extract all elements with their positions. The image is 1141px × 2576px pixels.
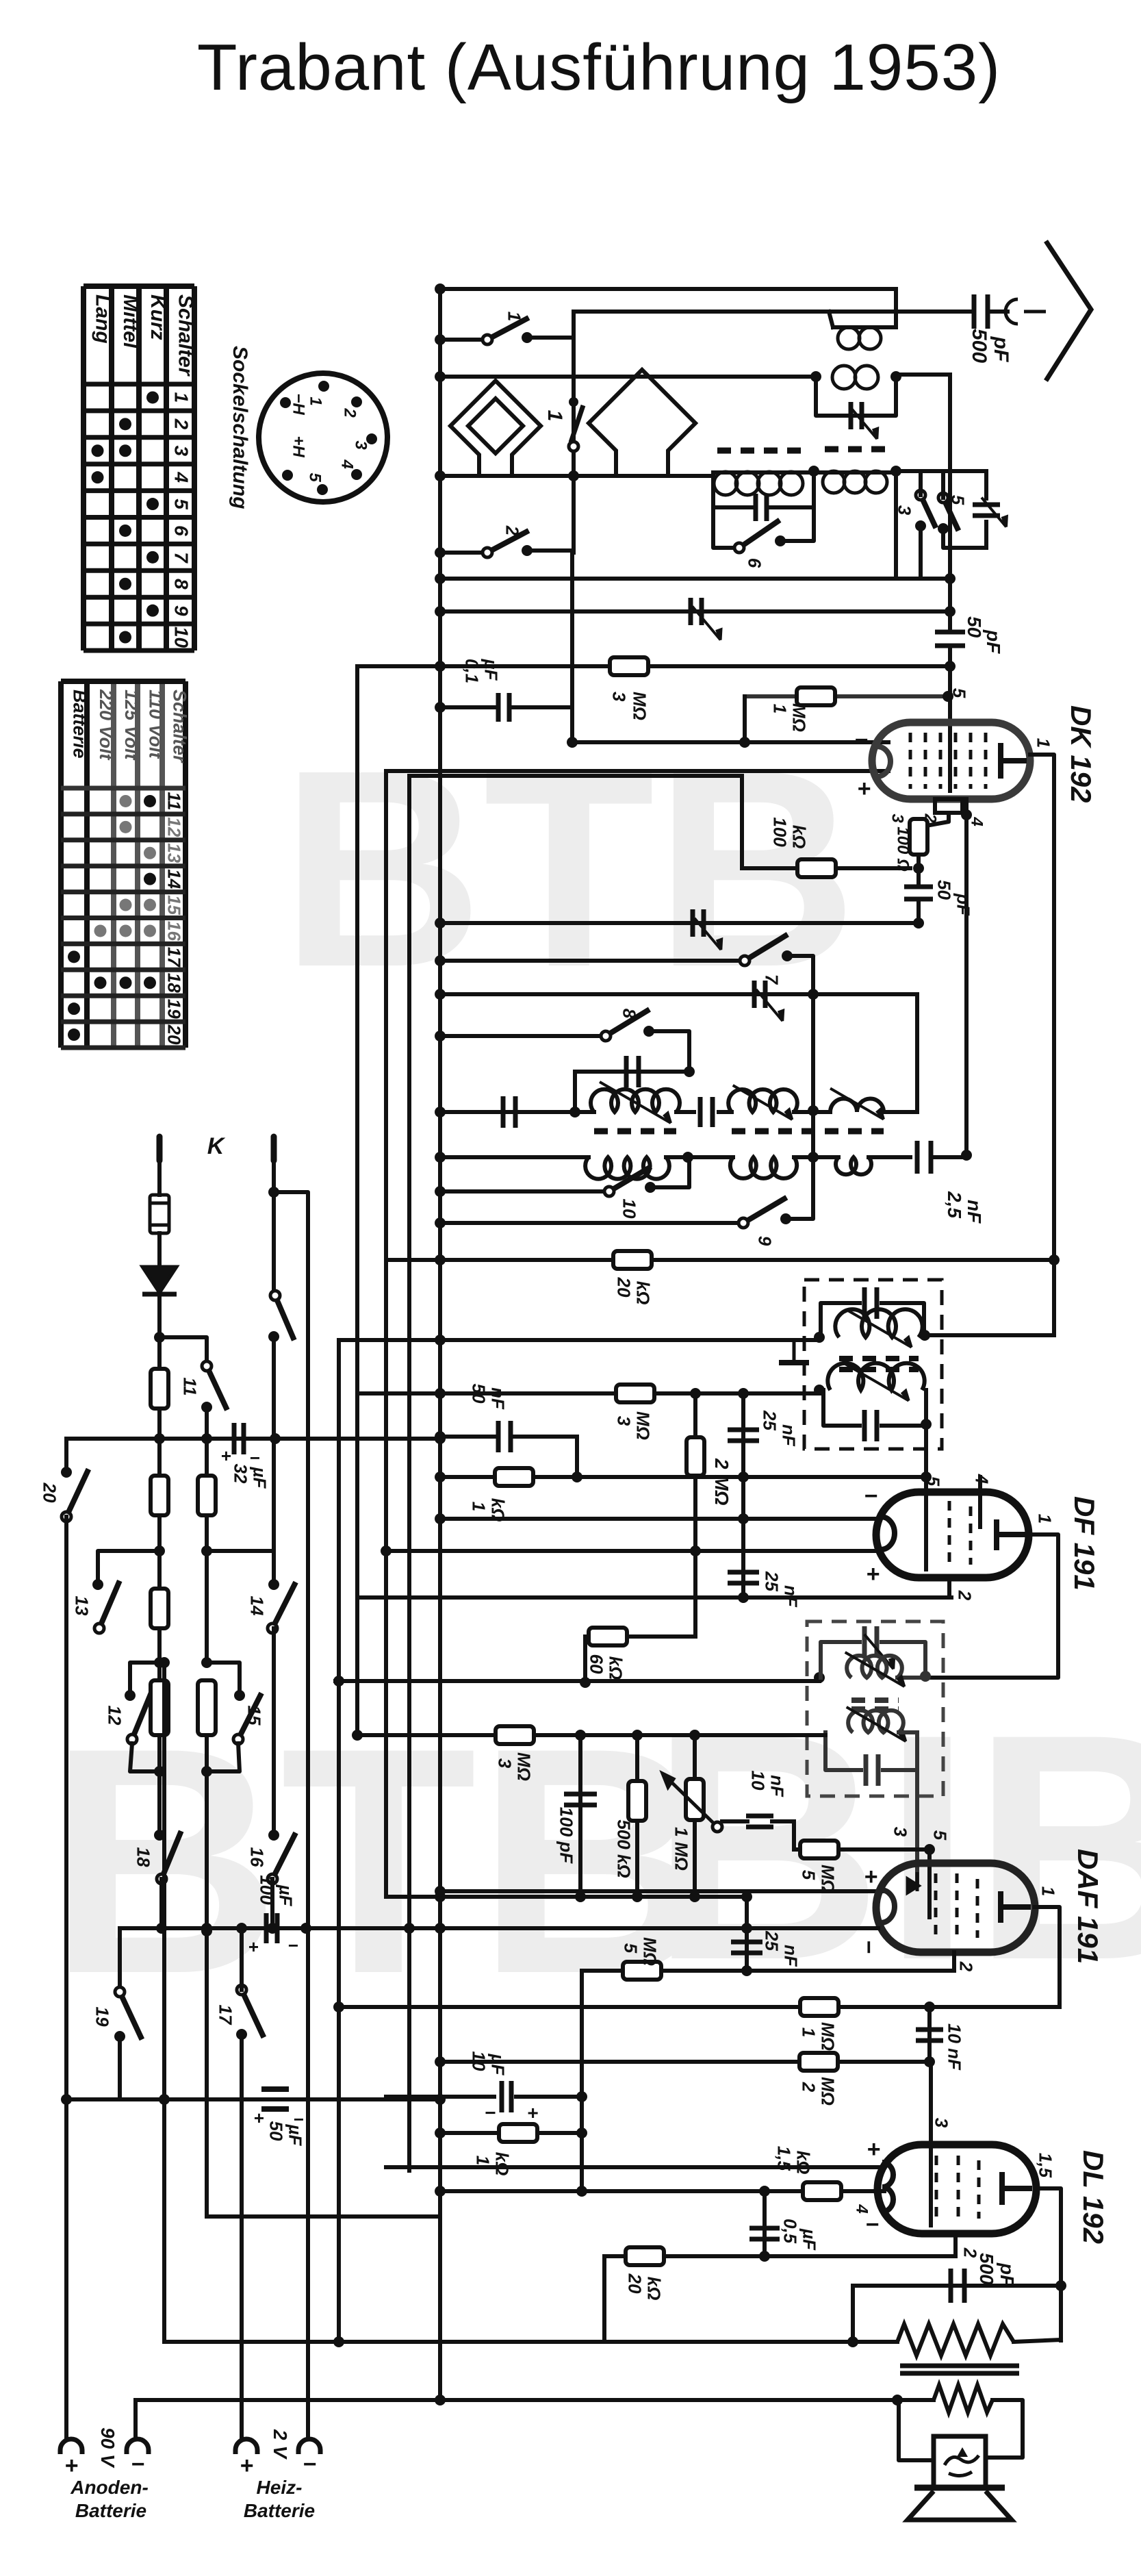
- svg-text:2: 2: [921, 813, 939, 823]
- wire: [440, 705, 494, 709]
- svg-text:+: +: [64, 2453, 78, 2479]
- capacitor 10nF: [746, 1816, 773, 1827]
- junction: [808, 1105, 819, 1116]
- resistor 2MOhm b: [799, 2053, 838, 2071]
- wire: [386, 1895, 747, 1899]
- wire: [207, 1551, 274, 1582]
- socket pin: [317, 484, 328, 495]
- wire: [851, 2286, 855, 2342]
- wire: [693, 1393, 697, 1437]
- wire: [386, 769, 888, 773]
- svg-text:8: 8: [170, 579, 192, 590]
- svg-text:+: +: [864, 1864, 877, 1890]
- junction: [435, 1431, 446, 1442]
- junction: [847, 2336, 858, 2347]
- switch 17 contact: [236, 2029, 247, 2040]
- svg-text:µF: µF: [481, 659, 502, 681]
- wire: [575, 1437, 579, 1477]
- wire: [157, 1409, 162, 1439]
- tube DF191 grid 3: [969, 1506, 973, 1565]
- svg-text:+: +: [248, 1936, 258, 1957]
- wire: [794, 1847, 930, 1852]
- capacitor 500pF b: [951, 2269, 964, 2303]
- svg-text:1: 1: [306, 396, 324, 405]
- wire: [713, 470, 814, 475]
- wire: [440, 338, 487, 342]
- coil osc 1c: [830, 1099, 884, 1113]
- coil IF2 secondary: [848, 1710, 903, 1732]
- switch 12 contact: [125, 1690, 136, 1701]
- switch 1 contact: [522, 332, 533, 343]
- wire: [98, 1551, 159, 1582]
- wire: [66, 1437, 440, 1441]
- IF1 core dash 1: [839, 1356, 919, 1361]
- wire: [440, 1221, 741, 1225]
- wire: [573, 1072, 577, 1112]
- wire: [894, 471, 898, 579]
- svg-text:1: 1: [543, 410, 566, 422]
- junction: [435, 1254, 446, 1265]
- svg-text:100: 100: [257, 1875, 277, 1905]
- wire: [357, 1595, 951, 1600]
- junction: [435, 2186, 446, 2197]
- wire: [205, 1439, 209, 1476]
- junction: [435, 1891, 446, 1902]
- junction: [435, 989, 446, 1000]
- junction: [435, 573, 446, 584]
- svg-text:kΩ: kΩ: [492, 2152, 513, 2176]
- wire: [386, 2165, 884, 2169]
- junction: [759, 2251, 770, 2262]
- tube DAF191 envelope: [876, 1863, 1035, 1952]
- junction: [435, 1923, 446, 1934]
- junction: [435, 702, 446, 713]
- junction: [738, 1388, 749, 1399]
- switch 17: [237, 1985, 264, 2038]
- wire: [986, 2400, 1023, 2458]
- wire HT to transformer: [164, 2340, 897, 2344]
- wire main bus: [438, 289, 442, 2400]
- svg-text:17: 17: [216, 2005, 236, 2025]
- wire: [272, 1337, 276, 1551]
- wire: [159, 1879, 164, 1928]
- coil arrow: [843, 1363, 908, 1401]
- svg-text:2: 2: [502, 525, 523, 536]
- resistor 1MOhm: [797, 687, 835, 705]
- wire: [916, 899, 921, 923]
- svg-text:2,5: 2,5: [944, 1191, 965, 1218]
- switch 20 contact: [61, 1467, 72, 1478]
- wire: [896, 469, 986, 473]
- wire: [916, 868, 921, 887]
- wire: [440, 551, 487, 555]
- junction: [920, 1671, 931, 1682]
- coil osc 1b: [728, 1089, 797, 1112]
- capacitor osc 2: [700, 1097, 713, 1127]
- switch 10: [604, 1167, 651, 1196]
- switch mains: [270, 1291, 294, 1340]
- svg-text:nF: nF: [488, 1387, 509, 1410]
- wire: [386, 1258, 1054, 1262]
- table Schalter 1-10 grid: [84, 286, 194, 651]
- svg-text:20: 20: [164, 1024, 185, 1045]
- svg-text:Mittel: Mittel: [119, 294, 142, 349]
- junction: [576, 2091, 587, 2102]
- switch band vertical: [569, 405, 583, 451]
- wire: [713, 476, 752, 507]
- wire: [440, 375, 816, 379]
- junction: [61, 2094, 72, 2105]
- capacitor 0.5uF: [749, 2228, 780, 2239]
- wire: [440, 1475, 926, 1479]
- svg-text:µF: µF: [488, 2054, 509, 2076]
- svg-text:Kurz: Kurz: [146, 294, 169, 340]
- tube DL192 grid 1: [935, 2156, 938, 2223]
- wire: [741, 1393, 745, 1598]
- wire: [440, 1435, 494, 1439]
- resistor dropper 4b: [198, 1680, 216, 1735]
- junction: [682, 1152, 693, 1163]
- capacitor IF2 primary: [864, 1626, 877, 1658]
- capacitor 25nF b: [728, 1572, 759, 1583]
- junction: [913, 918, 924, 929]
- svg-text:1: 1: [473, 2156, 493, 2165]
- resistor 5MOhm a: [623, 1962, 661, 1980]
- wire: [440, 609, 950, 614]
- svg-text:+: +: [866, 1561, 880, 1587]
- svg-text:MΩ: MΩ: [818, 1865, 838, 1893]
- junction: [435, 661, 446, 672]
- decor: [48, 711, 1141, 2041]
- tube DL192 filament: [882, 2162, 893, 2212]
- wire pin2 DL: [953, 2234, 958, 2256]
- wire: [157, 1233, 162, 1267]
- wire: [988, 310, 1008, 314]
- core dashes 1: [594, 1128, 676, 1135]
- junction: [814, 1672, 825, 1683]
- svg-text:3: 3: [170, 445, 192, 456]
- capacitor trimmer osc2: [754, 981, 765, 1008]
- speaker box: [934, 2436, 986, 2487]
- coil core dashes: [717, 448, 808, 454]
- svg-text:Batterie: Batterie: [69, 690, 90, 759]
- wire AVC: [357, 1733, 825, 1737]
- wire: [933, 1155, 966, 1159]
- coil band 1: [714, 472, 803, 495]
- IF1 core dash 2: [839, 1367, 919, 1372]
- switch 15 contact: [234, 1690, 245, 1701]
- svg-text:−: −: [293, 2109, 303, 2130]
- wire wiper: [722, 1819, 747, 1823]
- svg-text:3: 3: [609, 692, 630, 702]
- coil band 2: [823, 471, 887, 493]
- junction: [892, 2395, 903, 2405]
- socket pin: [318, 381, 329, 392]
- junction: [759, 2186, 770, 2197]
- table2 dot row18: [120, 976, 132, 989]
- svg-text:Batterie: Batterie: [75, 2500, 146, 2521]
- resistor dropper 1: [151, 1369, 168, 1409]
- junction: [580, 1677, 591, 1688]
- tube DAF191 anode: [998, 1891, 1003, 1923]
- junction: [435, 334, 446, 345]
- wire: [948, 647, 952, 666]
- wire: [853, 2284, 1061, 2288]
- wire: [270, 1879, 274, 1928]
- wire: [602, 2256, 606, 2342]
- table1 dot row3: [92, 444, 104, 457]
- wire: [794, 1155, 838, 1159]
- switch 2: [483, 531, 529, 557]
- resistor 60kOhm: [589, 1628, 627, 1645]
- wire: [440, 474, 713, 478]
- junction: [435, 1472, 446, 1482]
- diode rectifier: [142, 1267, 177, 1294]
- svg-text:500: 500: [976, 2253, 997, 2285]
- svg-text:1: 1: [504, 312, 525, 321]
- junction: [236, 1923, 247, 1934]
- junction: [333, 2002, 344, 2012]
- coil osc 2b: [730, 1157, 797, 1178]
- table1 dot row2: [119, 418, 131, 430]
- table2 dot row16: [94, 924, 107, 937]
- tube DK192 grid 3: [939, 733, 943, 789]
- coil antenna primary: [838, 327, 881, 349]
- wire DF anode: [927, 1535, 1058, 1678]
- coil arrow: [847, 1707, 906, 1741]
- switch 6 contact: [775, 535, 786, 546]
- capacitor 10nF b: [916, 2030, 943, 2041]
- svg-text:1: 1: [469, 1502, 489, 1511]
- wire: [357, 664, 950, 668]
- wire: [440, 1155, 589, 1159]
- wire: [894, 289, 898, 327]
- wire: [357, 1391, 819, 1396]
- wire: [527, 548, 572, 553]
- tube DAF191 filament: [881, 1890, 895, 1923]
- table2 dot row13: [144, 847, 156, 859]
- wire: [814, 470, 896, 475]
- IF2 core dash 1: [851, 1697, 899, 1703]
- wire IF2 to diode: [915, 1732, 919, 1883]
- switch 9: [739, 1198, 786, 1228]
- svg-text:DAF 191: DAF 191: [1072, 1849, 1104, 1964]
- svg-text:MΩ: MΩ: [818, 2077, 838, 2106]
- svg-text:3: 3: [351, 440, 370, 450]
- svg-text:−: −: [854, 727, 868, 753]
- svg-text:DL 192: DL 192: [1077, 2150, 1110, 2244]
- svg-text:500: 500: [968, 329, 990, 363]
- svg-text:25: 25: [760, 1410, 780, 1430]
- junction: [738, 1513, 749, 1524]
- junction: [154, 1332, 165, 1343]
- wire bus C: [384, 771, 388, 1897]
- junction: [435, 918, 446, 929]
- tube DK192 filament: [877, 746, 890, 776]
- junction: [632, 1891, 643, 1902]
- junction: [810, 371, 821, 382]
- resistor 100Ohm: [910, 819, 927, 855]
- wire: [585, 1634, 695, 1639]
- capacitor 50pF grid: [935, 632, 965, 646]
- switch 1: [483, 318, 529, 344]
- switch 18: [157, 1831, 181, 1884]
- junction: [159, 1657, 170, 1668]
- svg-text:+: +: [253, 2108, 264, 2128]
- trimmer arrow: [756, 989, 783, 1021]
- svg-text:2: 2: [170, 418, 192, 430]
- junction: [572, 1472, 582, 1482]
- wire: [924, 1390, 928, 1569]
- junction: [1055, 2280, 1066, 2291]
- wire DK anode: [1030, 755, 1054, 1334]
- wire: [570, 551, 574, 742]
- svg-text:2: 2: [956, 1961, 977, 1972]
- IF2 core dash 2: [851, 1706, 899, 1712]
- wire: [825, 1732, 861, 1770]
- svg-text:60: 60: [587, 1654, 607, 1674]
- coil IF1 secondary: [828, 1363, 924, 1390]
- coil core dashes 2: [825, 446, 890, 453]
- wire rail 240: [162, 1663, 166, 2342]
- svg-text:10 nF: 10 nF: [945, 2023, 965, 2071]
- svg-text:Batterie: Batterie: [244, 2500, 315, 2521]
- wire: [941, 471, 945, 498]
- antenna symbol: [1046, 241, 1091, 381]
- junction: [814, 1332, 825, 1343]
- svg-text:2: 2: [955, 1590, 975, 1601]
- svg-text:12: 12: [164, 817, 185, 837]
- switch 15: [233, 1693, 261, 1744]
- svg-text:1: 1: [799, 2028, 819, 2037]
- wire: [440, 1189, 607, 1194]
- coil arrow: [733, 1085, 793, 1120]
- svg-text:DK 192: DK 192: [1065, 705, 1097, 803]
- junction: [690, 1388, 701, 1399]
- junction: [435, 2094, 446, 2105]
- wire: [919, 813, 949, 827]
- wire: [207, 1743, 240, 1771]
- svg-text:MΩ: MΩ: [630, 692, 650, 720]
- junction: [201, 1923, 212, 1934]
- wire: [821, 1303, 860, 1337]
- wire anode plus rail: [64, 1517, 68, 2436]
- junction: [268, 1187, 279, 1198]
- svg-text:−: −: [303, 2451, 316, 2477]
- junction: [154, 1657, 165, 1668]
- wire: [883, 1732, 917, 1770]
- capacitor 32uF: [234, 1423, 244, 1454]
- tube DF191 grid 1: [925, 1501, 928, 1569]
- junction: [924, 2056, 935, 2067]
- resistor 20kOhm b: [626, 2247, 664, 2265]
- wire rail 495: [337, 1340, 341, 2342]
- wire: [897, 2400, 934, 2460]
- svg-text:1: 1: [1035, 1514, 1055, 1524]
- svg-text:13: 13: [72, 1596, 92, 1616]
- speaker flange: [914, 2485, 1005, 2491]
- switch 20: [62, 1469, 88, 1522]
- svg-text:14: 14: [164, 869, 185, 889]
- speaker cone: [908, 2491, 1012, 2520]
- junction: [154, 1545, 165, 1556]
- svg-text:17: 17: [164, 947, 185, 968]
- resistor 1MOhm b: [800, 1998, 838, 2016]
- terminal heiz plus: [235, 2439, 257, 2450]
- junction: [154, 1433, 165, 1444]
- capacitor IF1 secondary: [864, 1410, 877, 1441]
- wire: [440, 2131, 582, 2135]
- junction: [435, 1152, 446, 1163]
- tube DF191 envelope: [876, 1492, 1029, 1578]
- terminal K1: [157, 1137, 163, 1161]
- wire: [207, 2214, 440, 2219]
- table2 dot row16: [120, 924, 132, 937]
- svg-text:18: 18: [133, 1847, 154, 1867]
- wire: [948, 574, 952, 631]
- resistor 2MOhm: [687, 1437, 704, 1476]
- wire: [743, 696, 747, 742]
- coil arrow: [600, 1082, 671, 1123]
- junction: [945, 661, 956, 672]
- svg-text:MΩ: MΩ: [633, 1411, 654, 1440]
- svg-text:16: 16: [247, 1847, 268, 1867]
- wire: [771, 471, 814, 507]
- IF transformer 1 box: [804, 1280, 942, 1449]
- capacitor band: [756, 494, 767, 521]
- junction: [575, 1891, 586, 1902]
- svg-text:3: 3: [888, 813, 906, 823]
- tube DK192 envelope: [872, 722, 1030, 799]
- junction: [435, 1388, 446, 1399]
- svg-text:+: +: [857, 776, 871, 802]
- wire: [816, 377, 896, 416]
- capacitor 25nF c: [731, 1942, 762, 1953]
- junction: [924, 1844, 935, 1855]
- socket pin: [351, 396, 362, 407]
- junction: [738, 1592, 749, 1603]
- wire: [916, 855, 921, 868]
- wire: [583, 1637, 587, 1682]
- table1 dot row7: [146, 551, 159, 564]
- junction: [689, 1891, 700, 1902]
- wire: [157, 1736, 162, 1832]
- wire DK pin4 down: [964, 799, 969, 1154]
- wire: [650, 1157, 689, 1187]
- svg-text:1: 1: [1034, 738, 1054, 748]
- terminal anode plus: [60, 2439, 82, 2450]
- wire: [635, 1735, 639, 1897]
- junction: [201, 1433, 212, 1444]
- svg-text:20: 20: [614, 1277, 634, 1298]
- svg-text:18: 18: [164, 973, 185, 993]
- switch 14: [268, 1582, 296, 1633]
- svg-text:11: 11: [180, 1378, 201, 1396]
- wire: [575, 1070, 689, 1074]
- wire: [572, 740, 888, 744]
- resistor 3MOhm second: [616, 1385, 654, 1402]
- junction: [741, 1965, 752, 1976]
- trimmer arrow: [692, 606, 721, 640]
- transformer primary: [897, 2324, 1014, 2356]
- svg-text:Schalter: Schalter: [169, 690, 190, 763]
- svg-text:K: K: [207, 1133, 226, 1159]
- wire: [440, 1034, 604, 1038]
- junction: [741, 1923, 752, 1934]
- socket pin: [351, 469, 362, 480]
- core dashes 2: [732, 1128, 884, 1135]
- wire: [882, 1642, 925, 1675]
